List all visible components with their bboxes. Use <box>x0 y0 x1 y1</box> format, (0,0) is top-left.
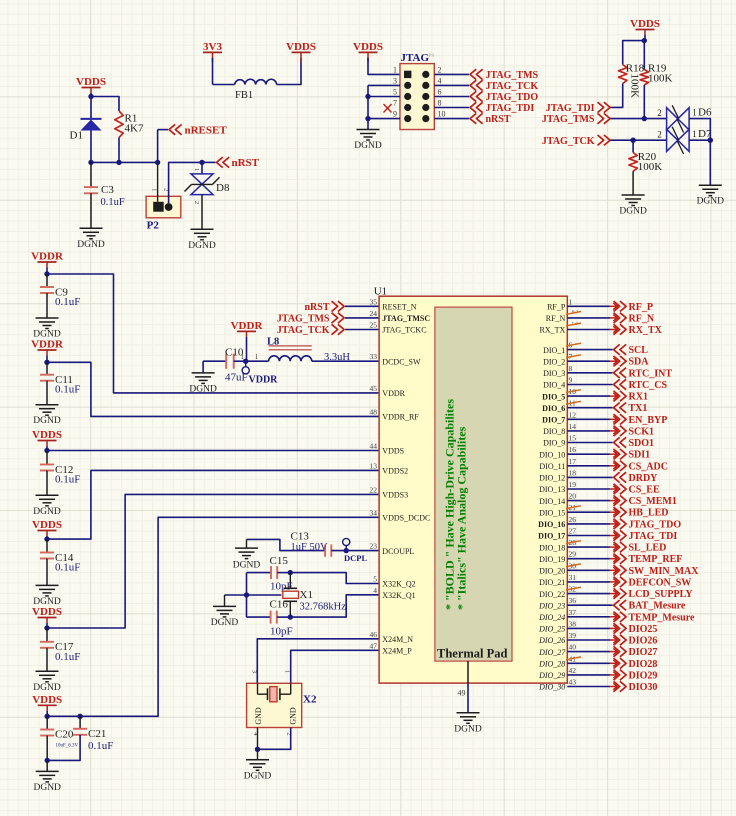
svg-text:JTAG_TMS: JTAG_TMS <box>486 70 539 81</box>
wire JTAG_TCK to D7 <box>611 139 667 141</box>
svg-text:JTAG_TCK: JTAG_TCK <box>486 81 539 92</box>
wire ground rail 32k <box>246 573 248 618</box>
svg-text:DIO_14: DIO_14 <box>539 497 565 506</box>
node D6/D7 right <box>708 138 713 143</box>
wire nRST to U1 <box>345 305 379 307</box>
svg-text:0.1uF: 0.1uF <box>55 474 80 486</box>
wire U1 pin 30 to port SW_MIN_MAX <box>567 569 610 571</box>
svg-text:43: 43 <box>569 678 577 687</box>
svg-text:10pF: 10pF <box>270 626 293 638</box>
wire U1 pin 27 to port JTAG_TDI <box>567 535 610 537</box>
svg-text:45: 45 <box>370 384 378 393</box>
svg-text:nRST: nRST <box>304 302 329 313</box>
svg-text:1: 1 <box>692 108 697 118</box>
node DCPL <box>344 548 349 553</box>
svg-text:RX1: RX1 <box>629 392 648 403</box>
wire D6 right <box>689 119 710 141</box>
svg-text:47: 47 <box>370 641 378 650</box>
wire U1 pin 14 to port SCK1 <box>567 430 610 432</box>
wire to ground D6/D7 <box>709 140 711 185</box>
port HB_LED <box>610 511 618 513</box>
wire case stub to X1 <box>247 594 282 596</box>
wire U1 pin 42 to port DIO29 <box>567 674 610 676</box>
svg-text:RF_P: RF_P <box>547 303 566 312</box>
svg-text:VDDR: VDDR <box>249 375 279 386</box>
wire node to L8 <box>246 360 269 362</box>
port JTAG_TDI <box>470 102 476 112</box>
node X1 top <box>288 570 293 575</box>
port SDI1 <box>610 453 618 455</box>
wire U1 pin 20 to port CS_MEM1 <box>567 500 610 502</box>
svg-text:TX1: TX1 <box>629 403 648 414</box>
ferrite bead FB1 <box>235 79 277 84</box>
IC U1 body <box>379 296 567 683</box>
port DIO25 <box>610 627 618 629</box>
port RX_TX <box>610 329 618 331</box>
svg-text:L8: L8 <box>267 336 279 347</box>
svg-text:VDDS: VDDS <box>630 18 660 30</box>
port TX1 <box>614 403 620 413</box>
svg-text:13: 13 <box>370 461 378 470</box>
wire U1 pin 28 to port SL_LED <box>567 546 610 548</box>
port TEMP_Mesure <box>610 616 618 618</box>
svg-text:DIO_1: DIO_1 <box>543 346 565 355</box>
svg-text:27: 27 <box>569 527 577 536</box>
svg-text:24: 24 <box>370 309 378 318</box>
svg-text:DCOUPL: DCOUPL <box>382 547 414 556</box>
port DIO30 <box>610 686 618 688</box>
svg-text:X24M_N: X24M_N <box>382 635 413 644</box>
svg-text:VDDS: VDDS <box>286 41 316 53</box>
svg-text:VDDS: VDDS <box>382 447 404 456</box>
wire U1 pin 12 to port EN_BYP <box>567 418 610 420</box>
svg-text:32.768kHz: 32.768kHz <box>300 602 347 613</box>
svg-text:Thermal Pad: Thermal Pad <box>437 647 508 661</box>
svg-text:DIO_7: DIO_7 <box>542 416 565 425</box>
svg-text:HB_LED: HB_LED <box>629 508 669 519</box>
wire node to R1 top <box>91 97 119 112</box>
node rail/case <box>244 592 249 597</box>
wire bottom 32k net <box>247 616 271 618</box>
svg-text:X24M_P: X24M_P <box>382 647 412 656</box>
svg-text:DGND: DGND <box>354 141 382 151</box>
svg-text:0.1uF: 0.1uF <box>55 384 80 396</box>
svg-text:RESET_N: RESET_N <box>382 303 416 312</box>
ground DGND below D7 <box>699 184 722 186</box>
capacitor C12 <box>46 451 48 465</box>
svg-text:31: 31 <box>569 573 577 582</box>
wire P2 pin1 <box>157 162 159 201</box>
svg-text:22: 22 <box>370 485 378 494</box>
wire U1 pin 10 to port RX1 <box>567 395 610 397</box>
svg-text:DIO29: DIO29 <box>629 670 658 681</box>
power port VDDR circle (below node) <box>245 361 247 367</box>
svg-text:nRST: nRST <box>232 157 260 169</box>
svg-text:DIO_24: DIO_24 <box>538 613 565 622</box>
TVS diode D6 <box>667 108 690 130</box>
svg-text:DIO_8: DIO_8 <box>543 427 565 436</box>
node R20 top <box>630 138 635 143</box>
svg-text:DCPL: DCPL <box>344 553 367 563</box>
svg-text:C13: C13 <box>291 531 310 543</box>
wire U1 pin 26 to port JTAG_TDO <box>567 523 610 525</box>
svg-text:DIO30: DIO30 <box>629 682 658 693</box>
svg-text:DGND: DGND <box>33 416 61 426</box>
port DEFCON_SW <box>610 581 618 583</box>
svg-text:FB1: FB1 <box>235 90 253 101</box>
port RX1 <box>610 395 618 397</box>
svg-text:DIO_12: DIO_12 <box>539 474 565 483</box>
svg-text:9: 9 <box>393 110 397 119</box>
svg-text:100K: 100K <box>638 161 663 173</box>
node D8 top <box>199 160 204 165</box>
svg-text:VDDR: VDDR <box>382 389 405 398</box>
port JTAG_TDI <box>610 535 618 537</box>
svg-text:42: 42 <box>569 666 577 675</box>
svg-text:1: 1 <box>692 129 697 139</box>
svg-text:39: 39 <box>569 631 577 640</box>
node C14 <box>44 536 49 541</box>
wire X2 pin4 to ground <box>257 728 259 750</box>
wire C20 node to C21 <box>47 715 80 717</box>
svg-text:DGND: DGND <box>454 724 482 734</box>
svg-text:DGND: DGND <box>619 207 647 217</box>
port JTAG_TDI (right) <box>598 102 604 112</box>
capacitor C13 <box>324 544 326 556</box>
svg-text:DGND: DGND <box>697 197 725 207</box>
svg-text:100K: 100K <box>648 73 673 85</box>
svg-text:3: 3 <box>250 670 257 673</box>
port nRST <box>470 113 476 123</box>
node R19/D6 <box>642 116 647 121</box>
svg-text:RTC_CS: RTC_CS <box>629 380 668 391</box>
wire to nRST port <box>202 161 216 163</box>
svg-text:DIO_4: DIO_4 <box>543 381 565 390</box>
port nRESET <box>157 130 159 163</box>
svg-text:23: 23 <box>370 542 378 551</box>
svg-text:X2: X2 <box>303 694 317 706</box>
wire X2 pin2 to ground <box>258 728 291 750</box>
svg-text:DIO26: DIO26 <box>629 636 658 647</box>
resistor R20 <box>632 140 634 152</box>
svg-text:DGND: DGND <box>77 240 105 250</box>
port SCL <box>614 344 620 354</box>
svg-text:C3: C3 <box>101 184 114 196</box>
wire JTAG to port JTAG_TDI <box>434 107 469 109</box>
capacitor C15 <box>270 566 272 579</box>
wire top 32k net <box>247 572 272 574</box>
wire JTAG ground rail <box>367 85 369 129</box>
svg-text:VDDS: VDDS <box>32 694 62 706</box>
port LCD_SUPPLY <box>610 593 618 595</box>
svg-text:33: 33 <box>370 352 378 361</box>
capacitor C11 <box>46 362 48 374</box>
port JTAG_TDO <box>610 523 618 525</box>
svg-text:35: 35 <box>370 297 378 306</box>
svg-text:TEMP_Mesure: TEMP_Mesure <box>629 612 695 623</box>
wire U1 pin 3 to port RX_TX <box>567 329 610 331</box>
svg-text:SDO1: SDO1 <box>629 438 655 449</box>
capacitor C14 <box>46 539 48 552</box>
svg-text:DIO_10: DIO_10 <box>539 450 565 459</box>
node DCDC_SW/C10/L8 <box>243 359 248 364</box>
node R18/R19 top <box>642 38 647 43</box>
wire R19 bottom <box>643 85 645 119</box>
svg-text:DIO_26: DIO_26 <box>538 636 565 645</box>
svg-text:26: 26 <box>569 515 577 524</box>
port RTC_CS <box>614 379 620 389</box>
inductor L8 <box>269 356 312 361</box>
svg-text:6: 6 <box>438 88 442 97</box>
wire U1 pin 18 to port DRDY <box>567 476 612 478</box>
wire C16 to X1 bottom node <box>277 616 291 618</box>
svg-text:X32K_Q2: X32K_Q2 <box>382 580 415 589</box>
IC U1 inner note box <box>435 307 512 661</box>
ground DGND below D8 <box>191 228 214 230</box>
svg-text:VDDS: VDDS <box>76 76 106 88</box>
svg-text:VDDS: VDDS <box>353 41 383 53</box>
svg-text:RX_TX: RX_TX <box>540 326 566 335</box>
svg-text:CS_ADC: CS_ADC <box>629 461 668 472</box>
port JTAG_TCK (right) <box>598 135 604 145</box>
wire C20/C21 to U1 VDDS_DCDC pin <box>80 517 379 716</box>
resistor R1 <box>115 111 123 138</box>
svg-text:DIO_16: DIO_16 <box>538 520 565 529</box>
crystal X1 <box>289 573 291 589</box>
svg-text:JTAG_TCK: JTAG_TCK <box>542 136 595 147</box>
svg-text:1: 1 <box>569 297 573 306</box>
svg-text:JTAG_TMSC: JTAG_TMSC <box>382 314 430 323</box>
svg-text:SL_LED: SL_LED <box>629 543 667 554</box>
svg-text:* "Italics" Have Analog Capa: * "Italics" Have Analog Capabilites <box>455 426 469 610</box>
svg-text:JTAG_TMS: JTAG_TMS <box>277 313 330 324</box>
svg-text:VDDR: VDDR <box>31 251 64 263</box>
wire C13 ground <box>247 539 326 550</box>
svg-text:3: 3 <box>393 76 397 85</box>
wire VDDS to node <box>90 93 92 97</box>
svg-text:RX_TX: RX_TX <box>629 325 663 336</box>
svg-text:C15: C15 <box>270 555 289 567</box>
port DRDY <box>614 472 620 482</box>
svg-text:JTAG_TCKC: JTAG_TCKC <box>382 326 426 335</box>
svg-text:DGND: DGND <box>189 384 217 394</box>
svg-text:DIO_3: DIO_3 <box>543 369 565 378</box>
port CS_ADC <box>610 465 618 467</box>
wire JTAG to port JTAG_TDO <box>434 96 469 98</box>
node VDDS/D1/R1 junction <box>88 94 93 99</box>
port SDA <box>610 360 618 362</box>
port JTAG_TMS (right) <box>598 113 604 123</box>
svg-text:CS_MEM1: CS_MEM1 <box>629 496 677 507</box>
node C21 <box>77 714 82 719</box>
wire U1 pin 6 to port SCL <box>567 349 612 351</box>
svg-text:DIO28: DIO28 <box>629 659 658 670</box>
resistor R18 <box>619 65 627 84</box>
capacitor C16 <box>270 611 272 624</box>
wire C10 to node <box>234 360 246 362</box>
svg-text:DGND: DGND <box>233 561 261 571</box>
wire VDDS to node <box>644 35 646 41</box>
svg-text:DIO_9: DIO_9 <box>543 439 565 448</box>
TVS diode D7 <box>667 129 690 151</box>
svg-text:LCD_SUPPLY: LCD_SUPPLY <box>629 589 694 600</box>
svg-text:CS_EE: CS_EE <box>629 485 660 496</box>
svg-text:SW_MIN_MAX: SW_MIN_MAX <box>629 566 700 577</box>
capacitor C9 <box>46 274 48 287</box>
svg-text:DIO_5: DIO_5 <box>542 392 565 401</box>
node JTAG pin5 <box>365 94 370 99</box>
svg-text:nRST: nRST <box>486 114 511 125</box>
node C11 <box>44 360 49 365</box>
svg-text:100K: 100K <box>629 74 641 99</box>
svg-text:VDDS2: VDDS2 <box>382 467 408 476</box>
svg-text:DIO_22: DIO_22 <box>539 590 565 599</box>
svg-text:10: 10 <box>438 110 446 119</box>
svg-text:D6: D6 <box>698 107 712 119</box>
svg-text:8: 8 <box>569 364 573 373</box>
svg-text:DIO_21: DIO_21 <box>539 578 565 587</box>
svg-text:SCK1: SCK1 <box>629 426 655 437</box>
port EN_BYP <box>610 418 618 420</box>
svg-text:8: 8 <box>438 99 442 108</box>
svg-text:25: 25 <box>370 321 378 330</box>
svg-text:44: 44 <box>370 442 378 451</box>
capacitor C3 <box>90 162 92 187</box>
svg-text:VDDS: VDDS <box>32 519 62 531</box>
port TEMP_REF <box>610 558 618 560</box>
svg-text:1: 1 <box>193 168 200 171</box>
svg-text:DGND: DGND <box>33 783 61 793</box>
svg-text:36: 36 <box>569 596 577 605</box>
svg-text:DEFCON_SW: DEFCON_SW <box>629 577 692 588</box>
svg-text:0.1uF: 0.1uF <box>101 197 125 208</box>
svg-text:3V3: 3V3 <box>203 41 222 53</box>
svg-text:1: 1 <box>151 188 158 191</box>
wire U1 pin 39 to port DIO26 <box>567 639 610 641</box>
wire C14 to U1 VDDS2 pin <box>47 470 379 539</box>
svg-text:DIO_20: DIO_20 <box>539 567 565 576</box>
port JTAG_TDO <box>470 91 476 101</box>
svg-text:9: 9 <box>569 376 573 385</box>
svg-text:16: 16 <box>569 445 577 454</box>
crystal X2 <box>247 683 302 727</box>
svg-text:14: 14 <box>569 422 577 431</box>
svg-text:DIO_23: DIO_23 <box>538 601 565 610</box>
svg-text:37: 37 <box>569 608 577 617</box>
node C12 <box>44 448 49 453</box>
svg-text:18: 18 <box>569 468 577 477</box>
svg-text:C16: C16 <box>270 599 289 611</box>
svg-text:DIO_2: DIO_2 <box>543 357 565 366</box>
wire C17 to U1 VDDS3 pin <box>47 494 379 628</box>
svg-text:48: 48 <box>370 407 378 416</box>
connector JTAG <box>400 64 434 130</box>
svg-text:DGND: DGND <box>188 241 216 251</box>
port SL_LED <box>610 546 618 548</box>
svg-text:JTAG_TMS: JTAG_TMS <box>542 114 595 125</box>
svg-text:nRESET: nRESET <box>185 124 228 136</box>
svg-text:2: 2 <box>657 130 662 140</box>
svg-text:38: 38 <box>569 619 577 628</box>
wire U1 pin 31 to port DEFCON_SW <box>567 581 610 583</box>
svg-text:VDDR: VDDR <box>231 320 264 332</box>
svg-text:SDA: SDA <box>629 357 650 368</box>
wire U1 X24M_P to X2 pin1 <box>291 650 379 683</box>
svg-text:DIO_15: DIO_15 <box>539 508 565 517</box>
wire FB1 to VDDS <box>277 58 302 85</box>
svg-text:DIO_19: DIO_19 <box>539 555 565 564</box>
svg-text:34: 34 <box>370 508 378 517</box>
svg-text:RF_N: RF_N <box>546 314 566 323</box>
svg-text:49: 49 <box>458 689 466 698</box>
svg-text:DGND: DGND <box>33 683 61 693</box>
wire U1 pin 16 to port SDI1 <box>567 453 610 455</box>
wire U1 pin 17 to port CS_ADC <box>567 465 610 467</box>
wire X1 top to U1 X32K_Q2 pin <box>290 573 379 584</box>
wire JTAG to port JTAG_TCK <box>434 84 469 86</box>
svg-text:1: 1 <box>284 670 291 673</box>
svg-text:VDDR_RF: VDDR_RF <box>382 413 419 422</box>
svg-text:5: 5 <box>373 575 377 584</box>
resistor R19 <box>643 41 645 70</box>
svg-text:40: 40 <box>569 643 577 652</box>
port CS_EE <box>610 488 618 490</box>
svg-text:JTAG_TDO: JTAG_TDO <box>486 92 539 103</box>
port DIO27 <box>610 651 618 653</box>
node JTAG pin9 <box>365 116 370 121</box>
svg-text:JTAG_TDI: JTAG_TDI <box>546 103 595 114</box>
svg-text:TEMP_REF: TEMP_REF <box>629 554 683 565</box>
node C9 <box>44 271 49 276</box>
svg-text:DRDY: DRDY <box>629 473 659 484</box>
svg-text:0.1uF: 0.1uF <box>55 562 80 574</box>
svg-text:DIO_30: DIO_30 <box>538 683 565 692</box>
wire U1 pin 36 to port BAT_Mesure <box>567 604 612 606</box>
svg-text:U1: U1 <box>374 286 387 298</box>
wire U1 X24M_N to X2 pin3 <box>257 639 379 684</box>
TVS diode D8 <box>201 162 203 174</box>
svg-text:RF_P: RF_P <box>629 302 653 313</box>
U1 pin 49 thermal <box>467 661 469 683</box>
svg-text:DIO_17: DIO_17 <box>538 532 565 541</box>
svg-text:DIO_29: DIO_29 <box>538 671 565 680</box>
svg-text:DGND: DGND <box>33 507 61 517</box>
port SDO1 <box>614 437 620 447</box>
wire U1 pin 15 to port SDO1 <box>567 442 612 444</box>
node C20 <box>45 714 50 719</box>
svg-text:4K7: 4K7 <box>125 123 144 135</box>
svg-text:0.1uF: 0.1uF <box>88 740 113 752</box>
svg-text:P8: P8 <box>429 53 435 59</box>
wire U1 pin 41 to port DIO28 <box>567 662 610 664</box>
svg-text:JTAG: JTAG <box>401 52 430 64</box>
ground DGND below R20 <box>622 194 645 196</box>
wire U1 pin 40 to port DIO27 <box>567 651 610 653</box>
svg-text:DCDC_SW: DCDC_SW <box>382 357 421 366</box>
ground DGND below C11 <box>36 404 59 406</box>
capacitor C17 <box>46 628 48 642</box>
node C17 <box>44 625 49 630</box>
node C20/C21 bottom <box>45 758 50 763</box>
ground DGND left of C13 <box>246 539 248 548</box>
svg-text:4: 4 <box>438 76 442 85</box>
wire U1 pin 29 to port TEMP_REF <box>567 558 610 560</box>
svg-text:RTC_INT: RTC_INT <box>629 368 673 379</box>
wire C13 to U1 DCOUPL pin <box>331 550 379 552</box>
wire U1 pin 43 to port DIO30 <box>567 686 610 688</box>
wire JTAG_TMS to U1 <box>345 317 379 319</box>
svg-text:GND: GND <box>254 707 263 725</box>
